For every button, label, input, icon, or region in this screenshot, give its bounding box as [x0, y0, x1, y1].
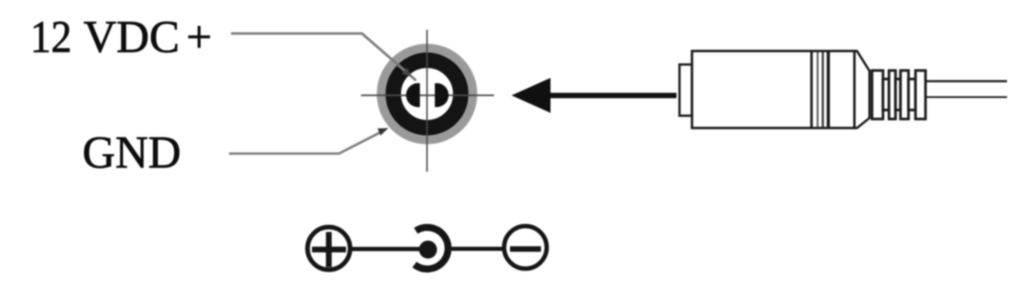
strain relief rib 3 [901, 71, 909, 120]
polarity minus sign [510, 246, 541, 252]
direction arrow shaft [548, 93, 677, 98]
strain relief neck 2 [896, 79, 901, 110]
cable bottom line [926, 96, 1008, 98]
strain relief rib 1 [872, 71, 883, 120]
svg-text:VDC: VDC [84, 11, 180, 62]
body ring line 1 [810, 52, 813, 127]
plug tip [680, 65, 693, 116]
crosshair horizontal line [361, 94, 494, 96]
cable top line [926, 80, 1008, 82]
leader line GND to barrel [229, 131, 384, 154]
strain relief neck 1 [883, 79, 889, 110]
leader arrowhead at barrel [378, 128, 389, 136]
crosshair vertical line [426, 30, 428, 172]
body ring line 3 [822, 52, 824, 127]
strain relief rib 4 [916, 71, 926, 120]
strain relief rib 2 [889, 71, 896, 120]
plug body [692, 51, 855, 128]
svg-text:12: 12 [30, 11, 71, 62]
polarity jack sleeve arc [414, 227, 448, 269]
polarity minus circle [504, 226, 547, 269]
connector front view: black barrel ring [393, 60, 461, 128]
leader arrowhead at pin [402, 68, 411, 77]
svg-text:+: + [186, 11, 212, 62]
plug end cap taper [855, 51, 870, 128]
svg-text:GND: GND [82, 127, 181, 178]
body ring line 2 [817, 52, 819, 127]
center pin left half [406, 83, 420, 107]
polarity plus circle [308, 227, 351, 270]
strain relief neck 3 [909, 79, 916, 110]
body ring line 4 [827, 52, 830, 127]
polarity center pin dot [419, 241, 437, 259]
center pin right half [435, 83, 449, 107]
connector front view: outer grey ring [381, 48, 473, 140]
polarity plus sign [312, 232, 346, 267]
direction arrow head [512, 78, 551, 113]
leader line 12VDC+ to pin [231, 34, 416, 81]
polarity link line sleeve to minus [449, 247, 505, 251]
polarity link line plus to dot [351, 247, 426, 251]
